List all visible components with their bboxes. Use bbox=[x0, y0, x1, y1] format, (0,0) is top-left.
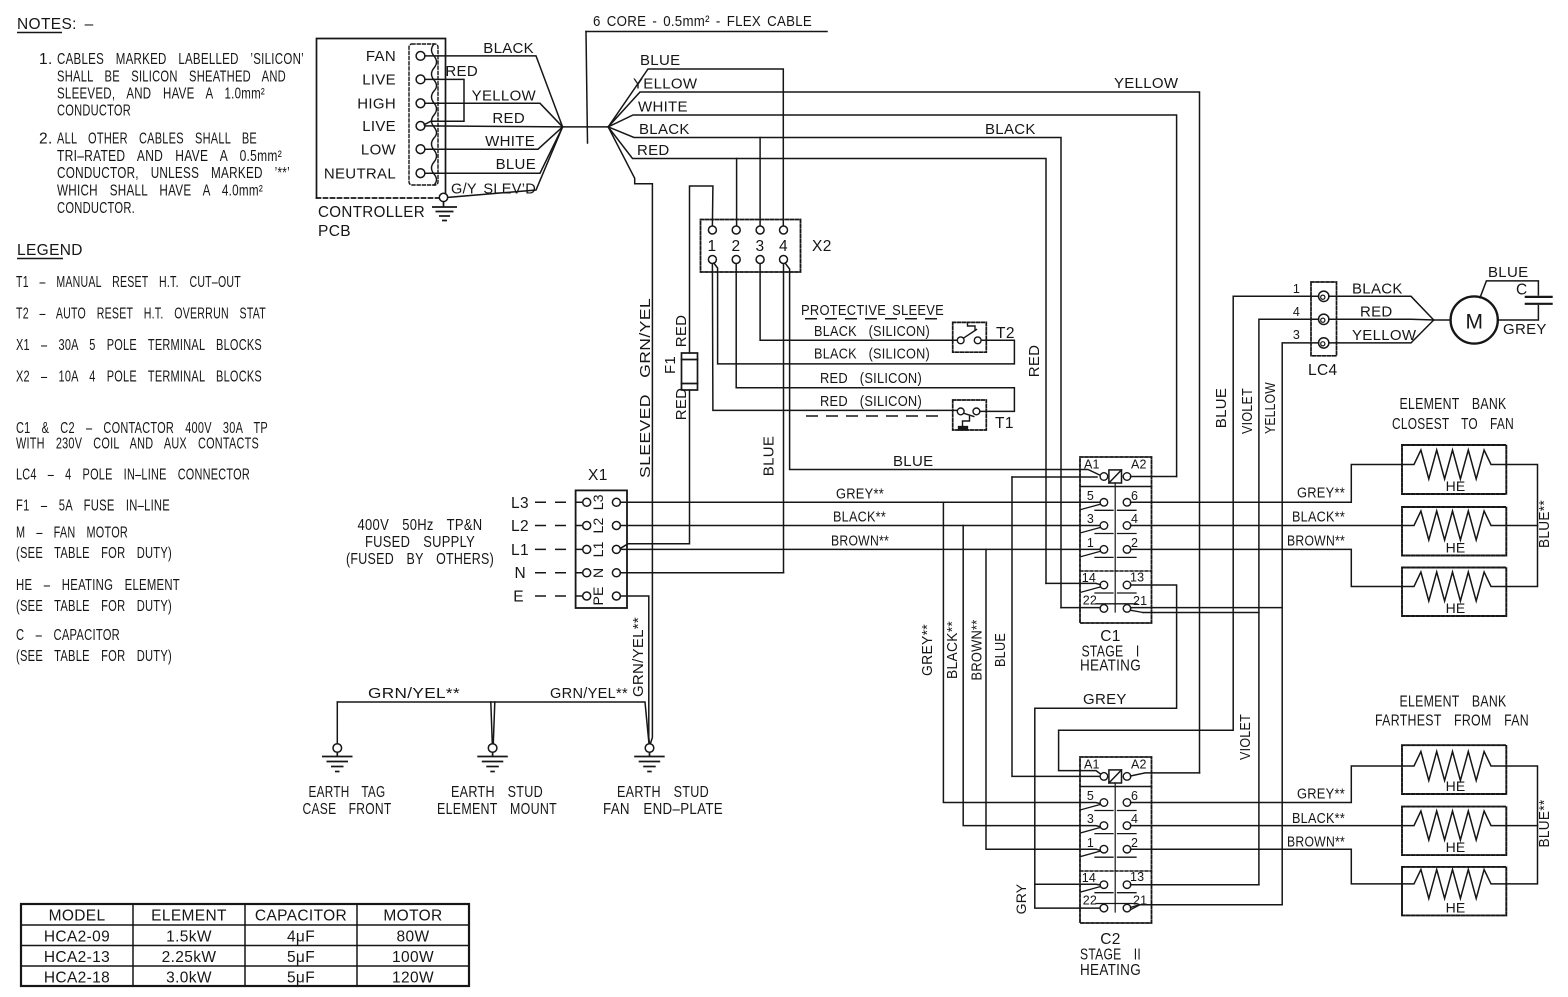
X2 pin 4 bottom bbox=[780, 256, 788, 264]
svg-text:FAN: FAN bbox=[366, 48, 396, 65]
svg-text:T1 – MANUAL RESET H.T. CU: T1 – MANUAL RESET H.T. CUT–OUT bbox=[16, 274, 241, 291]
C2 pin 13 bbox=[1123, 881, 1131, 889]
T2 thermal actuator bbox=[968, 322, 976, 329]
svg-text:MODEL: MODEL bbox=[49, 908, 106, 925]
svg-text:4: 4 bbox=[1293, 305, 1300, 319]
C1 pin A1 bbox=[1100, 473, 1108, 481]
svg-text:HE: HE bbox=[1446, 839, 1466, 855]
svg-text:1: 1 bbox=[1293, 282, 1300, 296]
T1 reset button bbox=[959, 427, 968, 431]
svg-text:C – CAPACITOR: C – CAPACITOR bbox=[16, 627, 120, 644]
wire PE to earth stud bbox=[620, 596, 649, 744]
svg-text:VIOLET: VIOLET bbox=[1239, 388, 1256, 434]
svg-text:HE: HE bbox=[1446, 600, 1466, 616]
svg-text:HE: HE bbox=[1446, 540, 1466, 556]
C2 contact 5-6 arm and bars bbox=[1081, 805, 1100, 810]
node L1 stub bbox=[535, 548, 582, 550]
svg-text:X2 – 10A 4 POLE TERMINAL: X2 – 10A 4 POLE TERMINAL BLOCKS bbox=[16, 369, 262, 386]
svg-text:BLACK**: BLACK** bbox=[944, 621, 961, 679]
wire BROWN** C2-2 to HE6 bbox=[1131, 849, 1403, 884]
wire GREY** C2-6 to HE4 bbox=[1131, 766, 1403, 803]
heating element HE box 2 bbox=[1402, 507, 1506, 556]
svg-text:RED: RED bbox=[673, 388, 690, 421]
X1 pin L2 left bbox=[583, 522, 591, 530]
C1 linkage bbox=[1114, 483, 1116, 612]
wire BLACK** C2-4 to HE5 bbox=[1131, 825, 1403, 827]
C1 contact 3-4 arm and bars bbox=[1081, 528, 1100, 533]
svg-text:1: 1 bbox=[1087, 836, 1094, 850]
svg-text:YELLOW: YELLOW bbox=[1262, 382, 1279, 434]
wire F1 top to X2-1 bbox=[690, 186, 713, 353]
wire GREY** L3 to C1-5 bbox=[620, 501, 1100, 503]
svg-text:RED: RED bbox=[673, 315, 690, 348]
C2 pin A2 bbox=[1123, 773, 1131, 781]
svg-text:1.5kW: 1.5kW bbox=[166, 929, 212, 946]
heating element HE box 3 bbox=[1402, 568, 1506, 617]
svg-text:3: 3 bbox=[756, 238, 765, 255]
svg-text:VIOLET: VIOLET bbox=[1237, 714, 1254, 760]
cutout T1 box bbox=[953, 400, 987, 430]
svg-text:6: 6 bbox=[1131, 489, 1138, 503]
svg-text:HCA2-18: HCA2-18 bbox=[44, 970, 110, 987]
controller pin LIVE2 bbox=[416, 122, 425, 131]
wire RED core to C1-14 bbox=[608, 127, 1046, 584]
svg-text:EARTH TAG: EARTH TAG bbox=[309, 784, 386, 801]
wire BROWN** C1-2 to HE3 bbox=[1131, 549, 1403, 586]
svg-text:BROWN**: BROWN** bbox=[1287, 834, 1345, 851]
X1 pin PE left bbox=[583, 592, 591, 600]
svg-text:13: 13 bbox=[1130, 870, 1144, 884]
svg-text:YELLOW: YELLOW bbox=[1352, 327, 1417, 344]
ground symbol fan end-plate bbox=[634, 752, 665, 771]
svg-text:BROWN**: BROWN** bbox=[1287, 533, 1345, 550]
wire WHITE from LOW bbox=[425, 127, 563, 149]
X2 pin 1 bottom bbox=[708, 256, 716, 264]
svg-text:BROWN**: BROWN** bbox=[831, 533, 889, 550]
controller PCB box bbox=[317, 39, 446, 199]
svg-text:SLEEVED, AND HAVE A 1.0mm²: SLEEVED, AND HAVE A 1.0mm² bbox=[57, 86, 265, 103]
svg-text:X1 – 30A 5 POLE TERMINAL: X1 – 30A 5 POLE TERMINAL BLOCKS bbox=[16, 337, 262, 354]
C1 pin 6 bbox=[1123, 499, 1131, 507]
ground symbol element mount bbox=[477, 752, 508, 771]
svg-text:PCB: PCB bbox=[318, 223, 351, 240]
svg-text:CONDUCTOR: CONDUCTOR bbox=[57, 103, 131, 120]
svg-text:ELEMENT BANK: ELEMENT BANK bbox=[1400, 694, 1507, 711]
motor M bbox=[1451, 296, 1498, 343]
svg-text:5μF: 5μF bbox=[287, 970, 315, 987]
svg-text:BLUE: BLUE bbox=[992, 633, 1009, 667]
heating element HE2 resistor zigzag bbox=[1402, 511, 1506, 540]
wire VIOLET riser LC4-4 to C2-13 bbox=[1259, 319, 1319, 884]
svg-text:EARTH STUD: EARTH STUD bbox=[617, 784, 709, 801]
svg-text:GRN/YEL**: GRN/YEL** bbox=[550, 685, 628, 702]
svg-text:C1 & C2 – CONTACTOR 400V: C1 & C2 – CONTACTOR 400V 30A TP bbox=[16, 420, 268, 437]
wire BLUE motor to capacitor bbox=[1480, 281, 1538, 298]
svg-text:X2: X2 bbox=[812, 238, 832, 255]
svg-text:22: 22 bbox=[1083, 894, 1097, 908]
svg-text:T2 – AUTO RESET H.T. OVER: T2 – AUTO RESET H.T. OVERRUN STAT bbox=[16, 306, 266, 323]
C1 pin 2 bbox=[1123, 546, 1131, 554]
connector LC4 box bbox=[1311, 282, 1337, 356]
heating element HE box 6 bbox=[1402, 867, 1506, 916]
svg-text:BLACK**: BLACK** bbox=[1292, 509, 1345, 526]
ground symbol under controller PCB bbox=[432, 202, 457, 221]
svg-text:HCA2-09: HCA2-09 bbox=[44, 929, 110, 946]
C2 coil divider bbox=[1080, 786, 1152, 788]
svg-text:5: 5 bbox=[1087, 789, 1094, 803]
svg-text:NEUTRAL: NEUTRAL bbox=[324, 166, 396, 183]
earth tag terminal bbox=[333, 744, 342, 753]
wire C1-21 arm to VIOLET riser bbox=[1143, 612, 1259, 614]
svg-text:T1: T1 bbox=[995, 415, 1014, 432]
wire A1 feeder from BLUE bus junction bbox=[1012, 476, 1097, 478]
controller pin FAN bbox=[416, 52, 425, 61]
T1 switch arm bbox=[964, 413, 974, 416]
svg-text:YELLOW: YELLOW bbox=[633, 76, 698, 93]
X1 pin L2 right bbox=[612, 522, 620, 530]
X1 pin PE right bbox=[612, 592, 620, 600]
svg-text:GRN/YEL**: GRN/YEL** bbox=[630, 617, 647, 697]
svg-text:M: M bbox=[1465, 311, 1483, 334]
svg-text:RED: RED bbox=[1026, 345, 1043, 378]
svg-text:6: 6 bbox=[1131, 789, 1138, 803]
svg-text:RED: RED bbox=[445, 63, 478, 80]
svg-text:C1: C1 bbox=[1100, 628, 1121, 645]
controller strip wavy edge bbox=[432, 44, 437, 185]
X2 pin 3 bottom bbox=[756, 256, 764, 264]
C1 coil symbol bbox=[1109, 470, 1122, 483]
wire BLUE bus down to C2 A1 bbox=[1012, 477, 1100, 776]
svg-text:BLACK (SILICON): BLACK (SILICON) bbox=[814, 323, 930, 340]
svg-text:L2: L2 bbox=[511, 518, 529, 535]
svg-text:BROWN**: BROWN** bbox=[969, 620, 986, 681]
X2 pin 4 top bbox=[780, 226, 788, 234]
svg-text:3: 3 bbox=[1087, 512, 1094, 526]
thermostat T2 box bbox=[953, 322, 987, 352]
C2 pin 5 bbox=[1100, 799, 1108, 807]
wire YELLOW from HIGH bbox=[425, 103, 563, 127]
svg-text:CAPACITOR: CAPACITOR bbox=[255, 908, 347, 925]
T1 left contact bbox=[957, 408, 964, 415]
svg-text:L1: L1 bbox=[511, 542, 529, 559]
C1 pin 3 bbox=[1100, 522, 1108, 530]
svg-text:RED: RED bbox=[492, 110, 525, 127]
svg-text:YELLOW: YELLOW bbox=[1114, 75, 1179, 92]
svg-text:14: 14 bbox=[1082, 871, 1096, 885]
svg-text:2: 2 bbox=[1131, 536, 1138, 550]
C1 pin A2 bbox=[1123, 473, 1131, 481]
wire RED jumper LIVE1-LIVE2 bbox=[424, 79, 464, 124]
svg-text:HCA2-13: HCA2-13 bbox=[44, 949, 110, 966]
X1 pin N left bbox=[583, 569, 591, 577]
C2 pin 2 bbox=[1123, 845, 1131, 853]
svg-text:2: 2 bbox=[1131, 836, 1138, 850]
C1 pin 22 bbox=[1100, 605, 1108, 613]
svg-text:BLUE: BLUE bbox=[496, 156, 536, 173]
svg-text:G/Y SLEV’D: G/Y SLEV’D bbox=[451, 181, 536, 198]
svg-text:GREY: GREY bbox=[1503, 321, 1547, 338]
C2 contact 22-21 bar and arm bbox=[1096, 903, 1137, 905]
svg-text:CASE FRONT: CASE FRONT bbox=[303, 801, 392, 818]
svg-text:SLEEVED GRN/YEL: SLEEVED GRN/YEL bbox=[637, 298, 654, 478]
svg-text:HE: HE bbox=[1446, 778, 1466, 794]
T2 left contact bbox=[957, 337, 964, 344]
svg-text:T2: T2 bbox=[996, 325, 1015, 342]
svg-text:A2: A2 bbox=[1131, 758, 1147, 772]
wire A2 to WHITE riser bbox=[1131, 476, 1177, 478]
svg-text:LOW: LOW bbox=[361, 142, 397, 159]
svg-text:(SEE TABLE FOR DUTY): (SEE TABLE FOR DUTY) bbox=[16, 598, 172, 615]
X2 pin 2 top bbox=[732, 226, 740, 234]
wire BLACK silicon X2-1 to T2 right via right loop bbox=[714, 263, 1015, 364]
capacitor C plates bbox=[1526, 296, 1552, 298]
T1 right contact bbox=[973, 408, 980, 415]
C1 contact 22-21 bar and arm bbox=[1096, 603, 1137, 605]
svg-text:FUSED SUPPLY: FUSED SUPPLY bbox=[365, 534, 475, 551]
protective sleeve dashed marks bbox=[805, 319, 944, 416]
svg-text:CABLES MARKED LABELLED ’SIL: CABLES MARKED LABELLED ’SILICON’ bbox=[57, 51, 304, 68]
svg-text:13: 13 bbox=[1130, 571, 1144, 585]
wire YELLOW riser LC4-3 to C2-21 bbox=[1282, 343, 1318, 905]
svg-text:WITH 230V COIL AND AUX CO: WITH 230V COIL AND AUX CONTACTS bbox=[16, 436, 259, 453]
svg-text:GREY**: GREY** bbox=[1297, 786, 1345, 803]
wire BROWN** riser to C2-1 bbox=[986, 549, 1100, 850]
svg-text:CONDUCTOR, UNLESS MARKED ’*: CONDUCTOR, UNLESS MARKED ’**’ bbox=[57, 165, 290, 182]
svg-text:BLUE: BLUE bbox=[1213, 388, 1230, 428]
wire BLACK into C1-22 bbox=[1061, 607, 1100, 609]
wire GREY** C1-6 to HE1 bbox=[1131, 465, 1403, 503]
svg-text:PE: PE bbox=[590, 586, 606, 605]
wire YELLOW core to C2 A2 bbox=[608, 92, 1199, 773]
wire GREY** riser to C2-5 bbox=[943, 502, 1100, 803]
svg-text:ELEMENT: ELEMENT bbox=[151, 908, 227, 925]
C1 pin 14 bbox=[1100, 581, 1108, 589]
X1 pin L3 left bbox=[583, 498, 591, 506]
svg-text:4: 4 bbox=[1131, 812, 1138, 826]
wire RED into C1-14 bbox=[1046, 583, 1100, 584]
svg-text:L3: L3 bbox=[511, 495, 529, 512]
wire BLUE** lower bank return bbox=[1506, 766, 1537, 884]
svg-text:F1 – 5A FUSE IN–LINE: F1 – 5A FUSE IN–LINE bbox=[16, 498, 170, 515]
svg-text:RED (SILICON): RED (SILICON) bbox=[820, 370, 922, 387]
heating element HE6 resistor zigzag bbox=[1402, 870, 1506, 899]
T2 right contact bbox=[974, 337, 981, 344]
svg-text:LIVE: LIVE bbox=[362, 118, 396, 135]
heating element HE1 resistor zigzag bbox=[1402, 450, 1506, 479]
svg-text:6 CORE - 0.5mm² - FLEX CABLE: 6 CORE - 0.5mm² - FLEX CABLE bbox=[593, 13, 812, 30]
svg-text:GREY: GREY bbox=[1083, 691, 1127, 708]
svg-text:PROTECTIVE SLEEVE: PROTECTIVE SLEEVE bbox=[801, 302, 944, 319]
wire C2-13 to VIOLET riser bbox=[1131, 884, 1259, 886]
wire C1-21 to C2-21 riser bbox=[1131, 607, 1282, 609]
table row lines bbox=[21, 924, 469, 926]
table outer border bbox=[21, 904, 469, 986]
C1 aux divider bbox=[1080, 570, 1152, 572]
heating element HE5 resistor zigzag bbox=[1402, 811, 1506, 840]
fan end-plate terminal bbox=[645, 744, 654, 753]
C2 contact 1-2 arm and bars bbox=[1081, 851, 1100, 856]
wire G/Y SLEV'D from earth pin bbox=[448, 127, 563, 197]
controller pin HIGH bbox=[416, 99, 425, 108]
svg-text:BLACK: BLACK bbox=[985, 121, 1036, 138]
wire BLUE core to X2-4 bbox=[608, 69, 783, 226]
C1 pin 4 bbox=[1123, 522, 1131, 530]
svg-text:L3: L3 bbox=[590, 494, 606, 510]
wire BLUE** upper bank return bbox=[1506, 465, 1537, 587]
fuse F1 body bbox=[682, 353, 698, 390]
wire F1 bottom to X1-L1 bbox=[621, 390, 690, 548]
node E stub bbox=[535, 595, 582, 597]
wire YELLOW LC4-3 to motor bbox=[1329, 320, 1434, 343]
svg-text:3: 3 bbox=[1087, 812, 1094, 826]
svg-text:RED: RED bbox=[1360, 304, 1393, 321]
svg-text:4: 4 bbox=[779, 238, 788, 255]
svg-text:5: 5 bbox=[1087, 489, 1094, 503]
svg-text:HEATING: HEATING bbox=[1080, 658, 1141, 675]
svg-text:FARTHEST FROM FAN: FARTHEST FROM FAN bbox=[1375, 713, 1529, 730]
svg-text:GREY**: GREY** bbox=[919, 624, 936, 676]
C2 linkage bbox=[1114, 783, 1116, 912]
C2 pin 21 bbox=[1123, 904, 1131, 912]
wire RED silicon X2-2 to T1 right via right loop bbox=[736, 264, 1014, 412]
wire BLACK from FAN bbox=[425, 56, 563, 127]
terminal block X2 box bbox=[701, 220, 801, 273]
svg-text:N: N bbox=[590, 568, 606, 578]
svg-text:YELLOW: YELLOW bbox=[472, 88, 537, 105]
wire RED from LIVE2 bbox=[425, 126, 563, 127]
wire sleeved GRN/YEL core down to earth stud bbox=[608, 127, 652, 744]
svg-text:HIGH: HIGH bbox=[357, 96, 396, 113]
wire RED tap down to X2-2 bbox=[736, 159, 738, 226]
svg-text:GREY**: GREY** bbox=[1297, 485, 1345, 502]
wire BLUE X2-4 down to X1-N row bbox=[783, 264, 785, 573]
ground symbol earth tag bbox=[322, 752, 353, 771]
svg-text:2.25kW: 2.25kW bbox=[162, 949, 217, 966]
svg-text:MOTOR: MOTOR bbox=[383, 908, 442, 925]
svg-text:WHITE: WHITE bbox=[485, 133, 535, 150]
svg-text:LIVE: LIVE bbox=[362, 72, 396, 89]
svg-text:C: C bbox=[1516, 282, 1528, 299]
svg-text:BLUE: BLUE bbox=[761, 436, 778, 476]
svg-text:LC4: LC4 bbox=[1308, 362, 1338, 379]
svg-text:HE: HE bbox=[1446, 478, 1466, 494]
wire N to X2-4 vertical bbox=[620, 572, 783, 574]
wire BROWN** L1 to C1-1 bbox=[620, 548, 1100, 550]
wire RED LC4-4 to motor bbox=[1329, 318, 1434, 321]
svg-text:X1: X1 bbox=[588, 467, 608, 484]
C2 pin 4 bbox=[1123, 822, 1131, 830]
X1 pin L3 right bbox=[612, 498, 620, 506]
svg-text:BLACK**: BLACK** bbox=[1292, 810, 1345, 827]
C1 pin 5 bbox=[1100, 499, 1108, 507]
heating element HE box 5 bbox=[1402, 807, 1506, 856]
svg-text:80W: 80W bbox=[397, 929, 430, 946]
svg-text:1.: 1. bbox=[39, 51, 53, 68]
svg-text:GRY: GRY bbox=[1013, 883, 1029, 914]
svg-text:CONDUCTOR.: CONDUCTOR. bbox=[57, 200, 135, 217]
controller earth pin bbox=[439, 193, 447, 201]
C1 pin 21 bbox=[1123, 605, 1131, 613]
svg-text:(SEE TABLE FOR DUTY): (SEE TABLE FOR DUTY) bbox=[16, 545, 172, 562]
svg-text:L2: L2 bbox=[590, 518, 606, 534]
wire BLACK tap down to X2-3 bbox=[759, 138, 761, 226]
X2 pin 1 top bbox=[708, 226, 716, 234]
wire GRN/YEL earth bus bbox=[337, 702, 649, 744]
svg-text:RED: RED bbox=[637, 142, 670, 159]
X2 pin 2 bottom bbox=[732, 256, 740, 264]
svg-text:5μF: 5μF bbox=[287, 949, 315, 966]
element mount terminal bbox=[488, 744, 497, 753]
heating element HE box 1 bbox=[1402, 445, 1506, 494]
table column lines bbox=[132, 904, 134, 986]
X1 pin N right bbox=[612, 569, 620, 577]
node N stub bbox=[535, 572, 582, 574]
heating element HE box 4 bbox=[1402, 745, 1506, 794]
X2 pin 3 top bbox=[756, 226, 764, 234]
svg-text:BLACK**: BLACK** bbox=[833, 509, 886, 526]
svg-text:STAGE II: STAGE II bbox=[1080, 947, 1141, 964]
svg-text:BLACK: BLACK bbox=[1352, 281, 1403, 298]
svg-text:F1: F1 bbox=[662, 356, 679, 374]
svg-text:E: E bbox=[513, 589, 524, 606]
wire GREY capacitor to motor bbox=[1498, 306, 1539, 320]
contactor C1 box bbox=[1080, 457, 1152, 623]
wire BLACK** L2 to C1-3 bbox=[620, 525, 1100, 527]
wire into motor bbox=[1434, 319, 1451, 321]
C2 pin 3 bbox=[1100, 822, 1108, 830]
C2 pin 22 bbox=[1100, 904, 1108, 912]
svg-text:N: N bbox=[514, 565, 526, 582]
wire C2-21 to riser bbox=[1131, 905, 1282, 908]
controller pin NEUTRAL bbox=[416, 169, 425, 178]
svg-text:C2: C2 bbox=[1100, 931, 1121, 948]
svg-text:21: 21 bbox=[1133, 594, 1147, 608]
wire C2 A2 to YELLOW riser bbox=[1131, 773, 1200, 776]
svg-text:A1: A1 bbox=[1084, 458, 1100, 472]
X1 pin L1 right bbox=[612, 545, 620, 553]
svg-text:RED (SILICON): RED (SILICON) bbox=[820, 393, 922, 410]
wire BLACK core to C1-22 bbox=[608, 127, 1061, 608]
svg-text:2: 2 bbox=[732, 238, 741, 255]
node L2 stub bbox=[535, 525, 582, 527]
heating element HE3 resistor zigzag bbox=[1402, 572, 1506, 601]
svg-text:ELEMENT BANK: ELEMENT BANK bbox=[1400, 396, 1507, 413]
wire BLACK LC4-1 to motor bbox=[1329, 296, 1434, 320]
wire GREY C1-13 to C2-14 and C2-22 bbox=[1035, 585, 1177, 908]
svg-text:BLUE: BLUE bbox=[640, 52, 680, 69]
svg-text:BLUE: BLUE bbox=[893, 453, 933, 470]
svg-text:BLACK (SILICON): BLACK (SILICON) bbox=[814, 346, 930, 363]
svg-text:A2: A2 bbox=[1131, 458, 1147, 472]
wire BLUE X2-4 to C1 A1 bbox=[785, 263, 1100, 475]
T2 switch arm bbox=[963, 330, 976, 339]
heating element HE4 resistor zigzag bbox=[1402, 752, 1506, 781]
svg-text:22: 22 bbox=[1083, 594, 1097, 608]
wire RED silicon X2-1 to T1 left bbox=[712, 264, 956, 411]
svg-text:NOTES: –: NOTES: – bbox=[17, 16, 94, 33]
svg-text:2.: 2. bbox=[39, 131, 53, 148]
LC4 pin 4 bbox=[1319, 314, 1329, 324]
earth tag drop wire bbox=[336, 702, 338, 744]
svg-text:(SEE TABLE FOR DUTY): (SEE TABLE FOR DUTY) bbox=[16, 648, 172, 665]
C2 pin 14 bbox=[1100, 881, 1108, 889]
terminal block X1 box bbox=[576, 490, 627, 608]
C2 pin 6 bbox=[1123, 799, 1131, 807]
svg-text:4μF: 4μF bbox=[287, 929, 315, 946]
wire BLUE riser LC4-1 to C2 A1 bbox=[1059, 296, 1319, 774]
svg-text:1: 1 bbox=[708, 238, 717, 255]
C1 coil divider bbox=[1080, 486, 1152, 488]
